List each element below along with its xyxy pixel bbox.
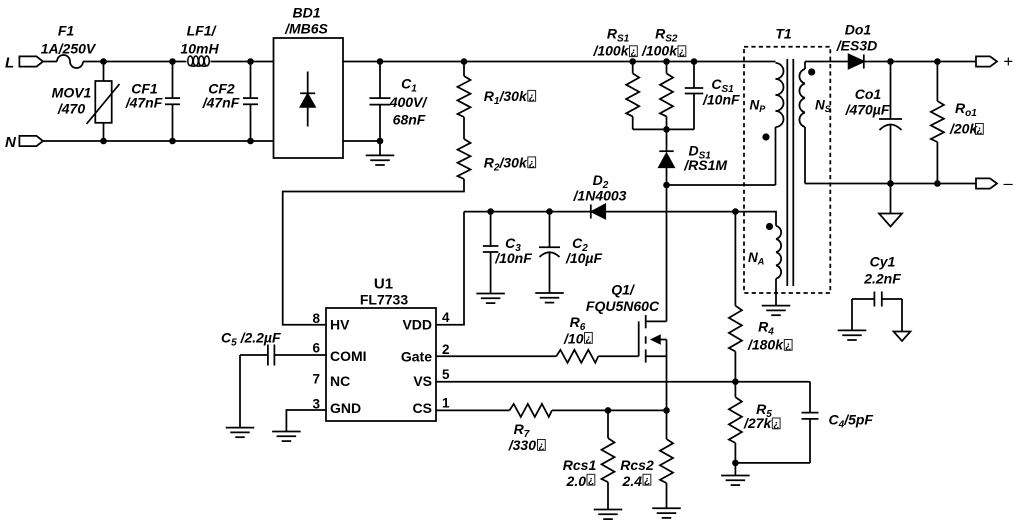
svg-text:GND: GND xyxy=(330,400,361,416)
diode Do1 xyxy=(836,22,877,69)
pin 7 NC xyxy=(312,371,350,389)
node VS junction xyxy=(732,378,739,385)
label R7 tofu xyxy=(538,440,546,452)
svg-text:FQU5N60C: FQU5N60C xyxy=(586,298,660,314)
node N input terminal xyxy=(5,134,43,151)
auxiliary winding NA xyxy=(605,212,781,306)
wire VS pin to R4/R5 node xyxy=(436,381,735,383)
op-amp U1 FL7733 body xyxy=(326,275,436,421)
node Rcs2-source junction xyxy=(663,407,670,414)
svg-text:/20k: /20k xyxy=(949,121,978,137)
node CF1 bottom junction xyxy=(169,138,176,145)
node Ro1 bottom junction xyxy=(934,180,941,187)
node R4 top junction xyxy=(732,208,739,215)
ground below C5 xyxy=(226,427,255,429)
node C2 junction xyxy=(546,208,553,215)
svg-text:¿: ¿ xyxy=(585,334,591,345)
capacitor CF2 xyxy=(202,62,258,142)
svg-text:/100k: /100k xyxy=(592,43,629,59)
svg-text:¿: ¿ xyxy=(773,419,779,430)
capacitor Cy1 xyxy=(852,254,902,332)
svg-text:Q1/: Q1/ xyxy=(611,281,636,297)
svg-text:+: + xyxy=(1004,53,1014,71)
svg-text:/47nF: /47nF xyxy=(202,95,240,111)
node DS1 anode junction xyxy=(663,182,670,189)
wire VDD rail xyxy=(464,211,550,213)
transformer core xyxy=(786,59,788,286)
resistor Rcs1 xyxy=(563,410,615,509)
svg-text:NC: NC xyxy=(330,373,350,389)
svg-text:¿: ¿ xyxy=(679,47,685,58)
svg-text:/10: /10 xyxy=(563,331,584,347)
ground below C1 xyxy=(366,141,395,165)
svg-text:¿: ¿ xyxy=(529,92,535,103)
svg-text:8: 8 xyxy=(312,311,320,326)
svg-text:68nF: 68nF xyxy=(393,111,426,127)
capacitor C5 xyxy=(221,330,326,428)
wire NS top to Do1 xyxy=(805,61,849,63)
svg-text:/10nF: /10nF xyxy=(494,250,532,266)
svg-text:¿: ¿ xyxy=(529,158,535,169)
svg-text:VDD: VDD xyxy=(402,317,432,333)
svg-text:2.0: 2.0 xyxy=(566,473,587,489)
svg-text:5: 5 xyxy=(442,367,450,382)
svg-text:Rcs2: Rcs2 xyxy=(620,457,654,473)
label Rcs2 tofu xyxy=(643,474,651,486)
wire fuse to LF1 xyxy=(83,61,187,63)
bridge rectifier BD1 xyxy=(274,5,344,159)
label Rcs1 tofu xyxy=(587,474,595,486)
svg-text:/100k: /100k xyxy=(641,43,678,59)
svg-text:/1N4003: /1N4003 xyxy=(573,188,627,204)
resistor R4 xyxy=(729,212,784,382)
fuse F1 xyxy=(41,23,97,69)
svg-text:U1: U1 xyxy=(374,275,393,292)
capacitor CF1 xyxy=(125,62,180,142)
node CF1 top junction xyxy=(169,58,176,65)
wire DC bus (BD1 to transformer NP top) xyxy=(343,61,776,63)
diode D2 xyxy=(573,172,627,219)
node - output terminal xyxy=(976,175,1014,193)
svg-text:¿: ¿ xyxy=(588,476,594,487)
ground below Rcs1 xyxy=(594,509,623,511)
svg-text:FL7733: FL7733 xyxy=(360,292,408,308)
svg-text:BD1: BD1 xyxy=(292,5,320,21)
resistor R2 xyxy=(458,139,471,179)
resistor R6 xyxy=(556,314,598,363)
wire LF1 to BD1 xyxy=(211,61,274,63)
node Co1 top junction xyxy=(887,58,894,65)
pin 5 VS xyxy=(413,367,450,389)
node C1 bottom junction xyxy=(377,138,384,145)
pin 6 COMI xyxy=(312,341,366,364)
svg-text:F1: F1 xyxy=(58,23,75,39)
svg-text:N: N xyxy=(5,134,17,151)
wire BD1 negative to C1 xyxy=(343,140,380,142)
svg-text:T1: T1 xyxy=(775,25,792,41)
svg-text:2.2nF: 2.2nF xyxy=(863,271,901,287)
node MOV1-N junction xyxy=(100,138,107,145)
svg-text:1A/250V: 1A/250V xyxy=(41,41,97,57)
varistor MOV1 xyxy=(52,62,120,142)
label R5 tofu xyxy=(772,418,780,430)
wire N rail xyxy=(43,140,274,142)
node R1 top junction xyxy=(461,58,468,65)
wire DS1 anode to NP bottom xyxy=(667,184,776,186)
wire CS pin to R7 xyxy=(436,409,510,411)
wire R6 to Q1 gate xyxy=(598,355,638,357)
svg-text:/27k: /27k xyxy=(743,415,772,431)
ground below C2 xyxy=(535,292,564,294)
resistor R1 xyxy=(458,62,471,118)
node Ro1 top junction xyxy=(934,58,941,65)
resistor R5 xyxy=(729,382,773,463)
svg-text:Do1: Do1 xyxy=(845,22,872,38)
resistor RS1 xyxy=(626,62,639,130)
ground below C3 xyxy=(476,293,505,295)
node RS2 top junction xyxy=(663,58,670,65)
svg-text:MOV1: MOV1 xyxy=(52,85,92,101)
svg-text:10mH: 10mH xyxy=(180,41,219,57)
node CS1 top junction xyxy=(691,58,698,65)
wire R7 to sense node xyxy=(552,409,667,411)
svg-text:4: 4 xyxy=(442,310,450,325)
node NS phase dot xyxy=(808,68,815,75)
node R5 bottom junction xyxy=(732,460,739,467)
transformer T1 dashed boundary xyxy=(744,47,830,293)
ground (open triangle) below Cy1 right xyxy=(894,332,911,342)
svg-text:/470: /470 xyxy=(57,101,85,117)
node Co1 bottom junction xyxy=(887,180,894,187)
node fuse-MOV1 junction xyxy=(100,58,107,65)
resistor R7 xyxy=(508,404,552,453)
svg-text:¿: ¿ xyxy=(538,441,544,452)
wire Gate pin to R6 xyxy=(436,355,556,357)
node NA phase dot xyxy=(766,223,773,230)
secondary winding NS xyxy=(799,62,830,184)
svg-text:Cy1: Cy1 xyxy=(870,254,896,270)
svg-text:¿: ¿ xyxy=(976,125,982,136)
svg-text:/RS1M: /RS1M xyxy=(683,157,727,173)
wire Do1 to + terminal xyxy=(864,61,976,63)
svg-text:VS: VS xyxy=(413,373,432,389)
pin 4 VDD xyxy=(402,310,450,333)
transistor Q1 xyxy=(586,281,667,410)
ground below R5 xyxy=(721,463,750,485)
ground below Cy1 left xyxy=(838,329,867,331)
svg-text:LF1/: LF1/ xyxy=(187,23,218,39)
svg-text:1: 1 xyxy=(442,396,450,411)
node RS1 top junction xyxy=(629,58,636,65)
svg-text:/ES3D: /ES3D xyxy=(836,38,877,54)
label R4 tofu xyxy=(784,340,792,352)
node C1 top junction xyxy=(377,58,384,65)
capacitor Co1 (polarized) xyxy=(845,62,902,184)
wire minus rail (NS bottom to - terminal) xyxy=(805,183,976,185)
svg-text:¿: ¿ xyxy=(644,476,650,487)
svg-text:/MB6S: /MB6S xyxy=(284,21,328,37)
svg-text:¿: ¿ xyxy=(630,47,636,58)
resistor Rcs2 xyxy=(620,410,673,508)
node NP phase dot xyxy=(762,133,769,140)
svg-text:2.4: 2.4 xyxy=(622,473,643,489)
pin 3 GND xyxy=(312,397,361,416)
wire snubber bottom join xyxy=(633,128,694,130)
svg-text:Rcs1: Rcs1 xyxy=(563,457,597,473)
wire C2 node to D2 xyxy=(550,211,591,213)
diode DS1 xyxy=(659,129,674,185)
pin 8 HV xyxy=(312,311,350,333)
node L input terminal xyxy=(5,55,43,72)
primary winding NP xyxy=(750,63,784,185)
inductor LF1 xyxy=(188,56,210,66)
node snubber-DS1 junction xyxy=(663,126,670,133)
capacitor CS1 xyxy=(685,62,704,130)
resistor RS2 xyxy=(660,62,673,130)
wire R2 to HV pin xyxy=(283,179,464,325)
svg-text:CS: CS xyxy=(413,400,432,416)
svg-text:/330: /330 xyxy=(508,437,536,453)
svg-text:–: – xyxy=(1004,175,1014,193)
node CF2 bottom junction xyxy=(247,138,254,145)
svg-text:Gate: Gate xyxy=(401,348,432,364)
node + output terminal xyxy=(976,53,1013,71)
capacitor C4 xyxy=(735,382,873,463)
svg-text:COMI: COMI xyxy=(330,348,367,364)
pin 2 Gate xyxy=(401,342,450,365)
svg-text:Co1: Co1 xyxy=(855,86,882,102)
svg-text:2: 2 xyxy=(442,342,450,357)
svg-text:/47nF: /47nF xyxy=(125,95,163,111)
label R6 tofu xyxy=(585,333,593,345)
svg-text:400V/: 400V/ xyxy=(389,94,429,110)
svg-text:/470µF: /470µF xyxy=(845,102,890,118)
wire drain line (DS1 node to Q1 drain) xyxy=(666,185,668,321)
node CF2 top junction xyxy=(247,58,254,65)
ground (open triangle) below Co1 xyxy=(879,184,902,227)
wire VDD riser to pin 4 xyxy=(436,212,464,325)
ground below GND pin xyxy=(272,431,301,433)
svg-text:7: 7 xyxy=(312,371,320,386)
svg-text:6: 6 xyxy=(312,341,320,356)
svg-text:/180k: /180k xyxy=(747,337,784,353)
wire GND pin to ground xyxy=(286,410,326,432)
ground below Rcs2 xyxy=(652,507,681,509)
capacitor C3 xyxy=(483,212,532,293)
svg-text:/10nF: /10nF xyxy=(702,92,740,108)
node C3 junction xyxy=(487,208,494,215)
pin 1 CS xyxy=(413,396,450,416)
svg-text:HV: HV xyxy=(330,317,350,333)
node Rcs1 junction xyxy=(605,407,612,414)
svg-text:¿: ¿ xyxy=(785,341,791,352)
capacitor C1 xyxy=(370,62,391,142)
ground below NA xyxy=(762,305,791,307)
wire L terminal to fuse xyxy=(43,61,57,63)
capacitor C2 (polarized) xyxy=(539,212,602,293)
wire R1 to R2 xyxy=(463,117,465,139)
svg-text:L: L xyxy=(5,55,14,72)
svg-text:/10µF: /10µF xyxy=(565,250,603,266)
resistor Ro1 xyxy=(931,62,944,184)
